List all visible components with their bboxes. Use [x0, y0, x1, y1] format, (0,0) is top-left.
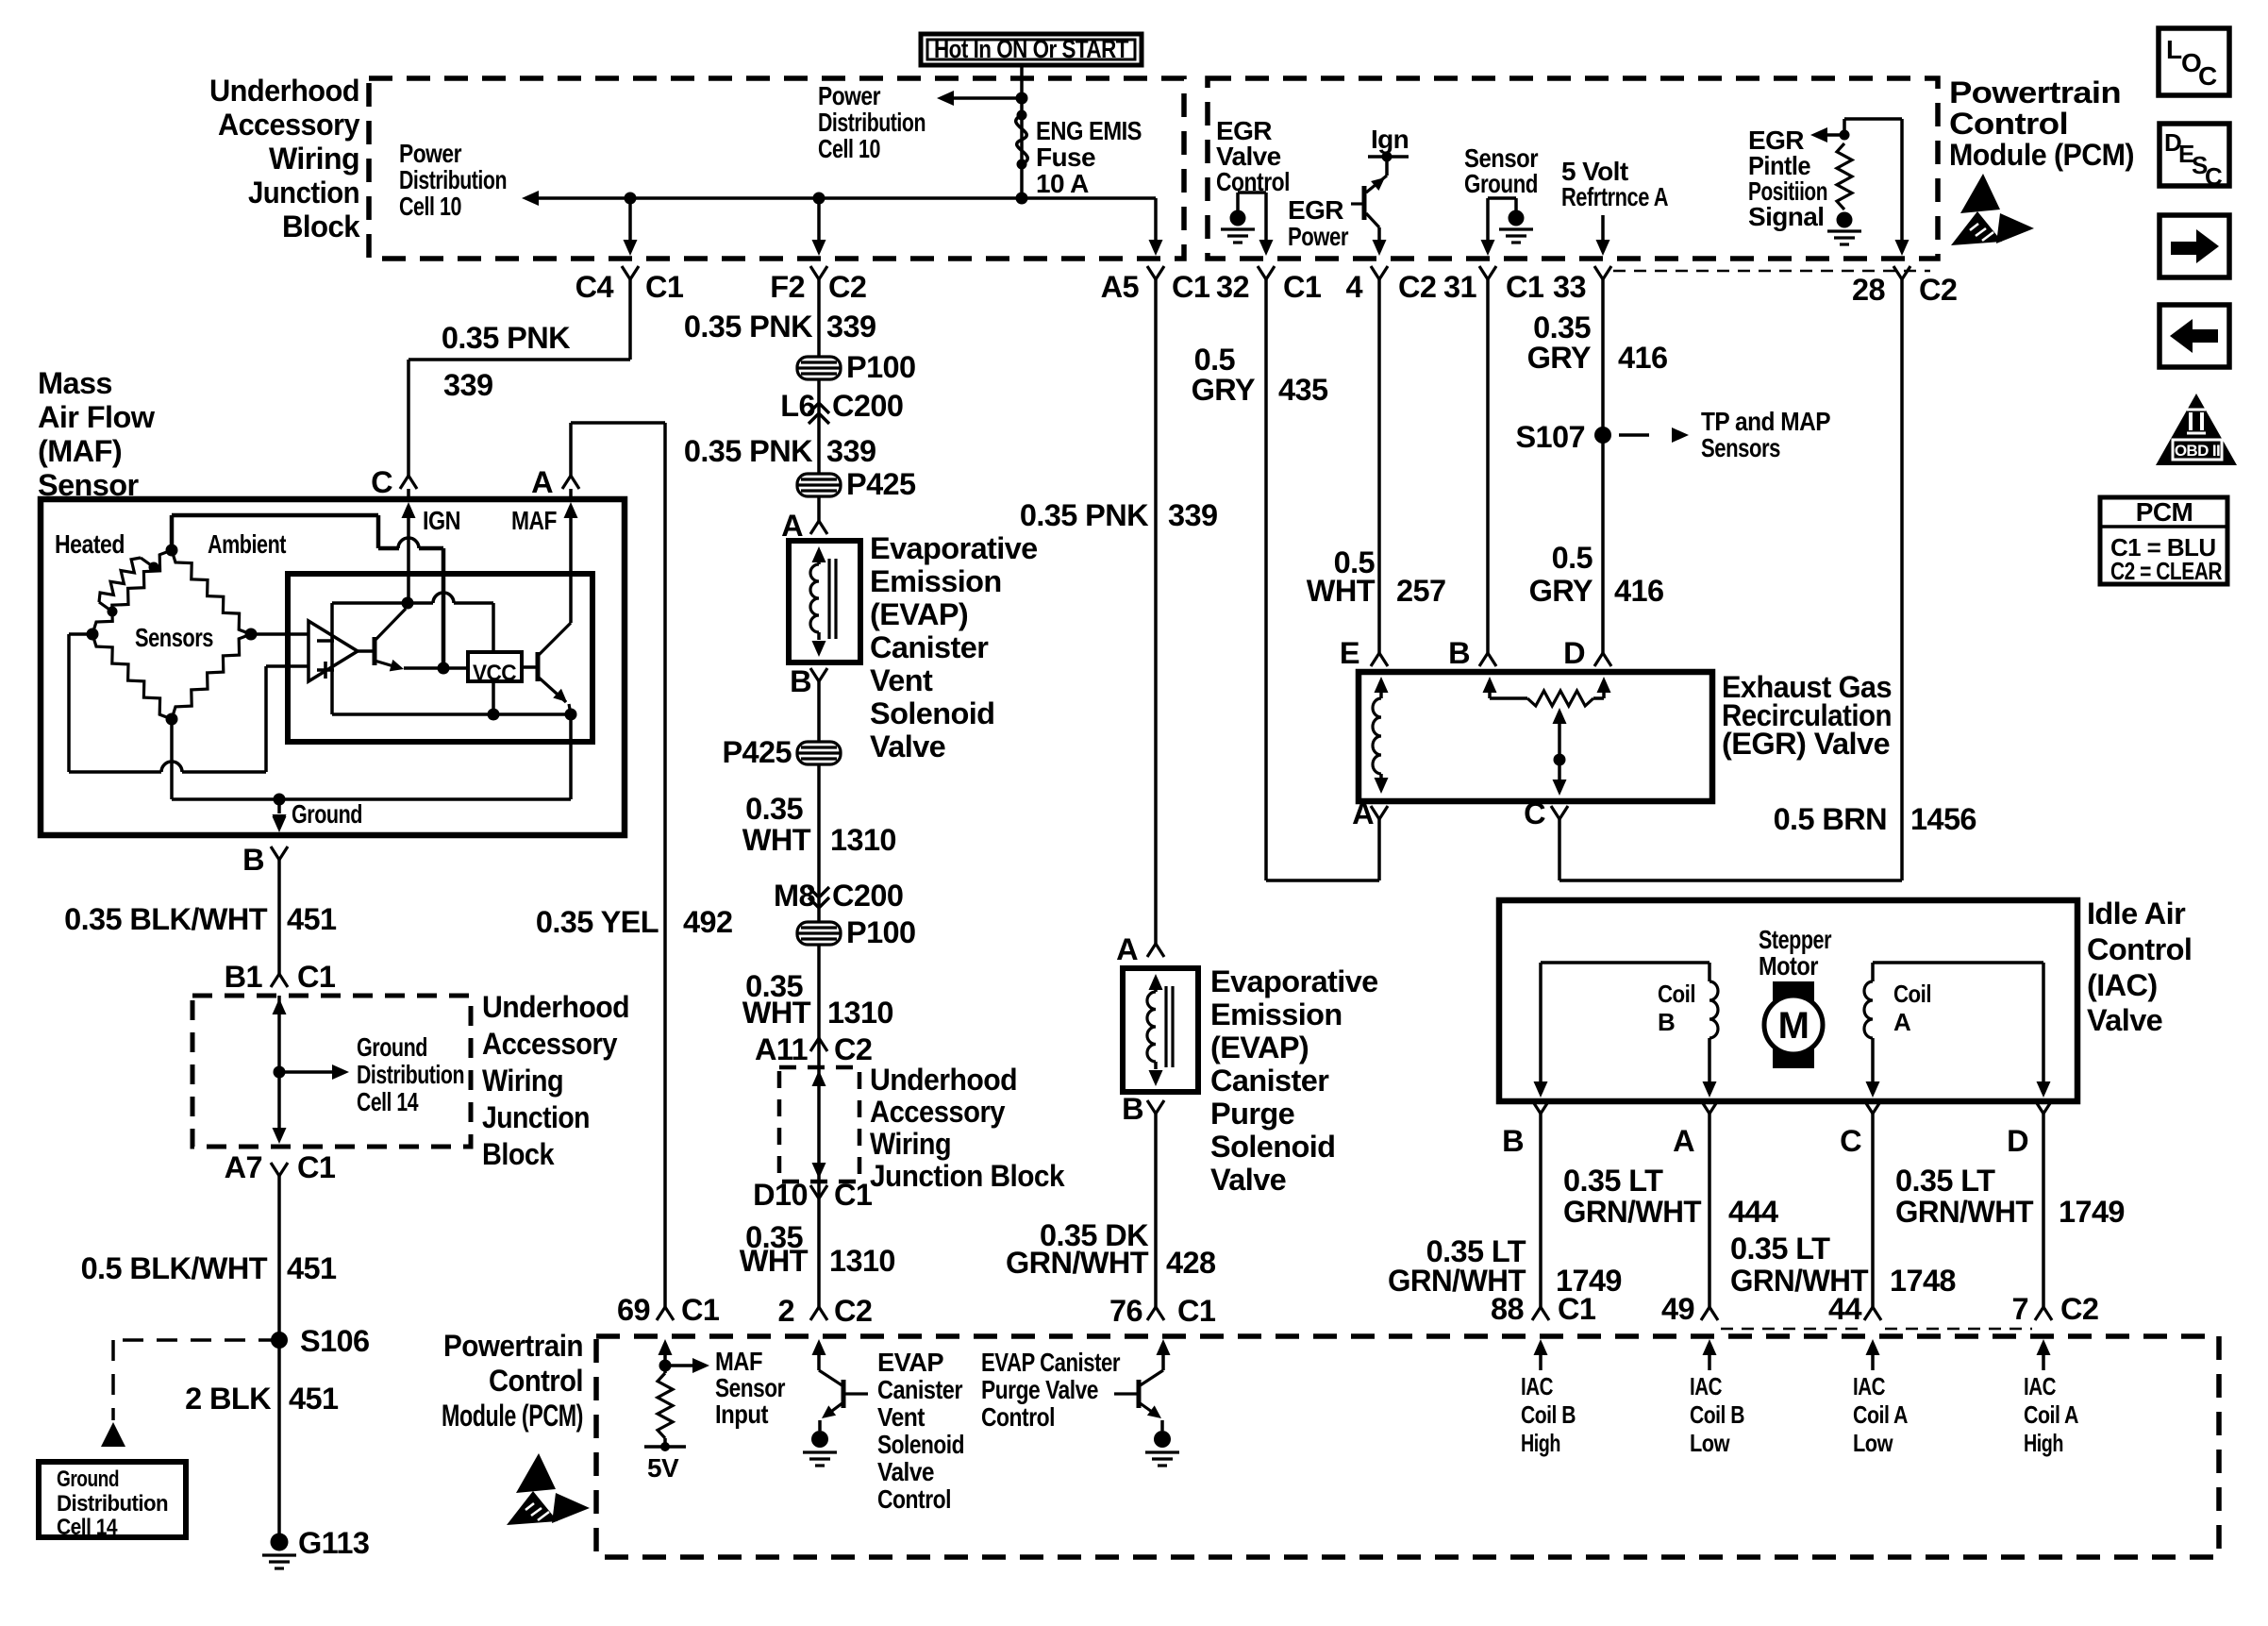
- wire pin32 to EGR A (0.5 GRY 435): [1264, 279, 1268, 880]
- svg-text:88: 88: [1491, 1292, 1524, 1326]
- svg-text:Junction: Junction: [482, 1100, 590, 1134]
- svg-text:69: 69: [617, 1293, 650, 1327]
- svg-text:Wiring: Wiring: [482, 1064, 563, 1098]
- svg-text:A7: A7: [225, 1150, 262, 1184]
- svg-text:492: 492: [683, 905, 732, 939]
- svg-text:D: D: [2007, 1124, 2028, 1158]
- svg-text:Motor: Motor: [1759, 951, 1819, 981]
- svg-text:444: 444: [1728, 1195, 1778, 1229]
- pin A5 C1: [1147, 266, 1164, 279]
- bridge resistor top-left (heated pair): [92, 550, 172, 634]
- svg-text:451: 451: [287, 902, 337, 936]
- dashed wire to ground distribution box: [113, 1338, 279, 1342]
- svg-text:Wiring: Wiring: [269, 142, 359, 176]
- ESD symbol top right: [1951, 174, 2034, 245]
- svg-text:1310: 1310: [830, 823, 896, 857]
- svg-text:Control: Control: [2087, 932, 2192, 966]
- svg-text:Valve: Valve: [2087, 1003, 2162, 1037]
- svg-text:B: B: [242, 843, 264, 877]
- svg-text:M8: M8: [774, 879, 815, 913]
- svg-text:0.35 YEL: 0.35 YEL: [536, 905, 659, 939]
- pin 69 C1: [657, 1307, 674, 1320]
- underhood accessory junction dashed box (left): [192, 996, 471, 1147]
- svg-text:Evaporative: Evaporative: [870, 531, 1038, 565]
- svg-text:P100: P100: [846, 915, 916, 949]
- pin 33: [1594, 266, 1611, 279]
- svg-text:Power: Power: [399, 139, 462, 168]
- EVAP canister purge solenoid valve box: [1123, 968, 1198, 1092]
- feedback left vertical: [330, 603, 334, 714]
- svg-text:Cell 10: Cell 10: [399, 192, 461, 221]
- svg-text:Emission: Emission: [1210, 997, 1342, 1031]
- DESC box: [2160, 124, 2229, 186]
- IGN junction dot: [402, 597, 414, 610]
- stepper motor M: [1773, 981, 1814, 1004]
- svg-text:G113: G113: [298, 1526, 369, 1560]
- svg-text:Junction: Junction: [248, 176, 359, 210]
- svg-text:A: A: [1893, 1008, 1911, 1036]
- svg-text:M: M: [1778, 1005, 1809, 1047]
- pin A of IAC: [1701, 1100, 1718, 1114]
- svg-text:Ground: Ground: [292, 799, 362, 829]
- pin 2 transistor EVAP vent control: [812, 1339, 826, 1355]
- rail to ground rail: [569, 714, 573, 799]
- IGN arrow and label inside MAF: [402, 502, 416, 518]
- svg-text:WHT: WHT: [742, 823, 811, 857]
- svg-text:Input: Input: [715, 1400, 768, 1429]
- svg-text:0.35 LT: 0.35 LT: [1563, 1164, 1663, 1198]
- svg-text:Refrtrnce A: Refrtrnce A: [1561, 182, 1668, 211]
- svg-text:5V: 5V: [647, 1453, 679, 1483]
- wire bridge right to op-amp minus: [251, 632, 309, 636]
- svg-text:Solenoid: Solenoid: [870, 696, 994, 730]
- svg-text:Fuse: Fuse: [1036, 142, 1095, 172]
- svg-text:451: 451: [287, 1251, 337, 1285]
- pin 32 C1: [1258, 266, 1275, 279]
- svg-text:(EVAP): (EVAP): [1210, 1031, 1309, 1064]
- svg-text:428: 428: [1166, 1246, 1216, 1280]
- ESD symbol bottom: [507, 1453, 590, 1525]
- svg-text:Underhood: Underhood: [482, 990, 629, 1024]
- svg-text:C: C: [1840, 1124, 1861, 1158]
- svg-text:10 A: 10 A: [1036, 169, 1089, 198]
- svg-text:C1: C1: [834, 1178, 873, 1212]
- VCC box: [468, 652, 522, 681]
- feedback wire from IGN dot to VCC top: [332, 601, 433, 605]
- bridge resistor bottom-right: [172, 634, 251, 719]
- svg-text:ENG EMIS: ENG EMIS: [1036, 116, 1142, 145]
- svg-text:B: B: [790, 664, 811, 698]
- svg-text:Underhood: Underhood: [209, 74, 359, 108]
- splice S106: [271, 1332, 288, 1349]
- svg-text:1310: 1310: [829, 1244, 895, 1278]
- svg-text:(IAC): (IAC): [2087, 968, 2158, 1002]
- MAF arrow and label inside MAF: [564, 502, 578, 518]
- svg-text:(EVAP): (EVAP): [870, 597, 968, 631]
- wire A5 drop: [1154, 198, 1158, 242]
- ground distribution cell 14 box: [39, 1462, 186, 1537]
- svg-text:Cell 10: Cell 10: [818, 134, 880, 163]
- svg-text:76: 76: [1109, 1294, 1142, 1328]
- svg-text:Coil A: Coil A: [1853, 1400, 1909, 1429]
- svg-text:D10: D10: [753, 1178, 808, 1212]
- svg-text:339: 339: [1168, 498, 1217, 532]
- svg-text:Vent: Vent: [877, 1402, 925, 1432]
- svg-text:33: 33: [1553, 270, 1586, 304]
- svg-text:Solenoid: Solenoid: [877, 1430, 964, 1459]
- svg-text:49: 49: [1661, 1292, 1694, 1326]
- small underhood junction dashed box (middle): [779, 1067, 859, 1182]
- svg-text:C4: C4: [575, 270, 614, 304]
- svg-text:EGR: EGR: [1288, 195, 1343, 225]
- svg-text:GRY: GRY: [1527, 341, 1592, 375]
- Q2 collector to MAF output: [569, 621, 573, 623]
- svg-text:Ground: Ground: [1464, 169, 1538, 198]
- idle air control IAC valve box: [1499, 900, 2077, 1101]
- EGR solenoid coil: [1375, 677, 1389, 693]
- svg-text:0.35 LT: 0.35 LT: [1730, 1232, 1830, 1266]
- MAF inner amplifier box: [288, 574, 592, 742]
- svg-text:416: 416: [1614, 574, 1663, 608]
- svg-text:0.35: 0.35: [1533, 310, 1591, 344]
- pin B of MAF: [273, 816, 287, 832]
- svg-text:C: C: [1524, 796, 1545, 830]
- svg-text:C1: C1: [681, 1293, 720, 1327]
- svg-text:7: 7: [2012, 1292, 2028, 1326]
- bridge node dots: [166, 545, 178, 557]
- wire 0.35 YEL 492 vertical: [663, 423, 667, 1307]
- wire bridge top to IGN circuit: [170, 515, 175, 550]
- pin 2 C2: [810, 1307, 827, 1320]
- pin 44: [1864, 1307, 1881, 1320]
- pin 28 C2: [1893, 266, 1910, 279]
- junction dot C4: [625, 193, 637, 205]
- pin A7 C1: [271, 1163, 288, 1176]
- svg-text:Heated: Heated: [55, 529, 125, 559]
- svg-text:C2: C2: [834, 1032, 872, 1066]
- svg-text:0.35 LT: 0.35 LT: [1895, 1164, 1995, 1198]
- svg-text:0.5: 0.5: [1552, 541, 1593, 575]
- svg-text:Canister: Canister: [1210, 1064, 1329, 1098]
- svg-text:Coil: Coil: [1658, 980, 1695, 1008]
- svg-text:B: B: [1122, 1092, 1143, 1126]
- svg-text:Air Flow: Air Flow: [38, 400, 156, 434]
- wire bridge left to op-amp plus: [69, 632, 92, 636]
- thin dashed connector boundary 49-44-7: [1721, 1328, 1860, 1330]
- svg-text:GRY: GRY: [1529, 574, 1593, 608]
- svg-text:Module (PCM): Module (PCM): [1949, 138, 2134, 172]
- IAC wires down: [1539, 1114, 1543, 1307]
- pin B of EVAP purge valve: [1147, 1100, 1164, 1114]
- svg-text:Mass: Mass: [38, 366, 112, 400]
- svg-text:Purge Valve: Purge Valve: [981, 1375, 1098, 1404]
- svg-text:EVAP: EVAP: [877, 1348, 943, 1377]
- svg-text:GRN/WHT: GRN/WHT: [1895, 1195, 2034, 1229]
- svg-text:P425: P425: [722, 735, 792, 769]
- svg-text:Low: Low: [1690, 1429, 1730, 1457]
- svg-text:C200: C200: [832, 879, 903, 913]
- svg-text:C1: C1: [1506, 270, 1544, 304]
- svg-text:2: 2: [778, 1294, 794, 1328]
- svg-text:Ign: Ign: [1371, 125, 1409, 154]
- svg-text:C1: C1: [1177, 1294, 1216, 1328]
- IAC pin arrows inside PCM: [1534, 1339, 1548, 1355]
- pin B of EVAP vent valve: [810, 668, 827, 681]
- svg-text:B: B: [1502, 1124, 1524, 1158]
- pin A of EVAP vent valve: [810, 521, 827, 534]
- svg-text:Module (PCM): Module (PCM): [442, 1399, 583, 1433]
- emitter rail Q1 to VCC: [404, 666, 468, 670]
- svg-text:339: 339: [443, 368, 492, 402]
- arrow to power distribution (top): [945, 96, 1022, 100]
- pin A of EVAP purge valve: [1147, 944, 1164, 957]
- svg-text:1748: 1748: [1890, 1264, 1956, 1298]
- wire pin31 to EGR B: [1486, 279, 1490, 653]
- svg-text:Distribution: Distribution: [818, 108, 926, 137]
- svg-text:WHT: WHT: [1307, 574, 1376, 608]
- svg-text:A: A: [1673, 1124, 1694, 1158]
- svg-text:451: 451: [289, 1382, 339, 1416]
- svg-text:IAC: IAC: [1521, 1372, 1554, 1400]
- svg-text:Ground: Ground: [357, 1032, 427, 1062]
- junction dot + ground distribution arrow: [274, 1066, 286, 1079]
- svg-text:Power: Power: [1288, 222, 1349, 251]
- svg-text:1456: 1456: [1910, 802, 1976, 836]
- svg-text:C1: C1: [1172, 270, 1210, 304]
- underhood accessory wiring junction block top dashed box: [369, 78, 1184, 259]
- svg-text:WHT: WHT: [740, 1244, 809, 1278]
- svg-text:WHT: WHT: [742, 996, 811, 1030]
- svg-text:P100: P100: [846, 350, 916, 384]
- svg-text:Purge: Purge: [1210, 1097, 1294, 1131]
- inline connector P100 (2): [797, 922, 841, 945]
- VCC to transistor Q2 base: [522, 665, 538, 669]
- svg-text:44: 44: [1828, 1292, 1861, 1326]
- svg-text:Block: Block: [482, 1137, 555, 1171]
- LOC box: [2159, 28, 2229, 95]
- pin B1 C1: [271, 974, 288, 987]
- svg-text:435: 435: [1278, 373, 1328, 407]
- svg-text:S107: S107: [1515, 420, 1585, 454]
- svg-text:Low: Low: [1853, 1429, 1893, 1457]
- svg-text:257: 257: [1396, 574, 1445, 608]
- fuse ENG EMIS 10 A: [1017, 110, 1027, 121]
- pin D10 C1: [810, 1185, 827, 1199]
- svg-text:Junction Block: Junction Block: [870, 1159, 1065, 1193]
- svg-text:GRN/WHT: GRN/WHT: [1563, 1195, 1702, 1229]
- svg-text:32: 32: [1216, 270, 1249, 304]
- svg-text:C2: C2: [1398, 270, 1436, 304]
- svg-text:C1: C1: [297, 1150, 336, 1184]
- svg-text:Wiring: Wiring: [870, 1127, 951, 1161]
- EGR wiper: [1553, 708, 1567, 724]
- svg-text:Power: Power: [818, 81, 881, 110]
- svg-text:GRY: GRY: [1192, 373, 1256, 407]
- OBD II triangle: [2156, 394, 2237, 465]
- svg-text:F2: F2: [770, 270, 805, 304]
- thin dashed connector boundary under pins 33-28: [1613, 270, 1930, 272]
- svg-text:416: 416: [1618, 341, 1667, 375]
- svg-text:Accessory: Accessory: [218, 108, 359, 142]
- pin 76 transistor EVAP purge control: [1157, 1339, 1171, 1355]
- svg-text:High: High: [1521, 1429, 1560, 1457]
- svg-text:Evaporative: Evaporative: [1210, 964, 1378, 998]
- svg-text:0.5 BRN: 0.5 BRN: [1774, 802, 1887, 836]
- svg-text:1749: 1749: [2059, 1195, 2125, 1229]
- pin B of IAC: [1532, 1100, 1549, 1114]
- pin 31 C1: [1479, 266, 1496, 279]
- right arrow box: [2160, 215, 2229, 277]
- svg-text:Accessory: Accessory: [870, 1095, 1005, 1129]
- svg-text:C200: C200: [832, 389, 903, 423]
- solenoid coil inside purge valve: [1149, 974, 1163, 990]
- pin C of IAC: [1864, 1100, 1881, 1114]
- coil B circuit: [1541, 961, 1709, 964]
- svg-text:0.35 PNK: 0.35 PNK: [684, 434, 813, 468]
- solenoid coil inside vent valve: [812, 546, 826, 562]
- svg-text:28: 28: [1852, 273, 1885, 307]
- svg-text:Stepper: Stepper: [1759, 925, 1832, 954]
- EGR pintle position resistor circuit pin 28: [1844, 117, 1902, 121]
- svg-text:0.35: 0.35: [745, 792, 803, 826]
- pin 7 C2: [2035, 1307, 2052, 1320]
- svg-text:C2: C2: [2060, 1292, 2098, 1326]
- svg-text:L6: L6: [780, 389, 815, 423]
- pin E of EGR: [1371, 653, 1388, 666]
- svg-text:A: A: [1116, 932, 1138, 966]
- svg-text:C: C: [371, 465, 392, 499]
- svg-text:Coil B: Coil B: [1690, 1400, 1744, 1429]
- power bus wire: [539, 196, 1156, 200]
- pin 88 C1: [1532, 1307, 1549, 1320]
- svg-text:B1: B1: [225, 960, 263, 994]
- svg-text:(EGR) Valve: (EGR) Valve: [1722, 727, 1890, 761]
- svg-text:Control: Control: [1949, 107, 2068, 141]
- pin A of MAF: [562, 476, 579, 489]
- bridge resistor top-right: [172, 550, 251, 634]
- svg-text:C: C: [2198, 61, 2217, 91]
- wire hot-in to bus: [1020, 65, 1024, 198]
- ground G113: [271, 1534, 289, 1551]
- svg-text:Block: Block: [282, 210, 360, 243]
- op-amp output to transistor Q1: [358, 649, 375, 653]
- powertrain control module top dashed box: [1208, 78, 1938, 259]
- left arrow box: [2160, 305, 2229, 367]
- svg-text:IAC: IAC: [1690, 1372, 1723, 1400]
- svg-text:Sensors: Sensors: [135, 623, 213, 652]
- pin A11 C2: [810, 1038, 827, 1051]
- svg-text:Distribution: Distribution: [399, 165, 507, 194]
- svg-text:L: L: [2166, 35, 2182, 64]
- svg-text:Sensors: Sensors: [1701, 433, 1780, 462]
- EGR valve control ground, pin 32: [1238, 191, 1266, 194]
- MAF sensor box: [41, 499, 625, 835]
- svg-text:E: E: [1340, 636, 1359, 670]
- transistor Q1: [373, 637, 377, 665]
- svg-text:1310: 1310: [827, 996, 893, 1030]
- exhaust gas recirculation EGR valve box: [1359, 672, 1712, 801]
- pin 4 C2: [1371, 266, 1388, 279]
- svg-text:Canister: Canister: [870, 630, 989, 664]
- bridge resistor bottom-left: [92, 634, 172, 719]
- svg-text:0.5: 0.5: [1194, 343, 1236, 377]
- svg-text:P425: P425: [846, 467, 916, 501]
- svg-text:Control: Control: [981, 1402, 1055, 1432]
- wire through junction box: [277, 996, 281, 1129]
- svg-text:0.5 BLK/WHT: 0.5 BLK/WHT: [81, 1251, 268, 1285]
- svg-text:Ground: Ground: [57, 1467, 119, 1492]
- wire F2 chain down: [817, 279, 821, 521]
- svg-text:A11: A11: [755, 1032, 809, 1066]
- pin 49: [1701, 1307, 1718, 1320]
- svg-text:High: High: [2024, 1429, 2063, 1457]
- svg-text:C: C: [2205, 162, 2223, 191]
- svg-text:Canister: Canister: [877, 1375, 963, 1404]
- svg-text:Solenoid: Solenoid: [1210, 1130, 1335, 1164]
- VCC bottom stub: [492, 681, 495, 714]
- svg-text:Valve: Valve: [877, 1457, 934, 1486]
- svg-text:339: 339: [826, 310, 876, 344]
- svg-text:Underhood: Underhood: [870, 1063, 1017, 1097]
- svg-text:C1: C1: [645, 270, 684, 304]
- wire bridge bottom to ground rail: [170, 719, 174, 799]
- svg-text:A5: A5: [1101, 270, 1140, 304]
- svg-text:PCM: PCM: [2136, 497, 2193, 527]
- svg-text:Distribution: Distribution: [357, 1060, 464, 1089]
- ground dot and arrow inside MAF: [274, 794, 286, 806]
- svg-text:C1: C1: [1283, 270, 1322, 304]
- svg-text:D: D: [1563, 636, 1585, 670]
- pin F2 C2: [810, 266, 827, 279]
- svg-text:IAC: IAC: [1853, 1372, 1886, 1400]
- svg-text:0.35 PNK: 0.35 PNK: [684, 310, 813, 344]
- svg-text:Control: Control: [489, 1364, 583, 1398]
- svg-text:Powertrain: Powertrain: [1949, 75, 2121, 109]
- transistor Q2: [536, 652, 541, 681]
- svg-text:B: B: [1658, 1008, 1675, 1036]
- svg-text:Ambient: Ambient: [208, 529, 286, 559]
- svg-text:IGN: IGN: [423, 506, 460, 535]
- svg-text:0.35 PNK: 0.35 PNK: [442, 321, 571, 355]
- svg-text:339: 339: [826, 434, 876, 468]
- op-amp U1: [309, 621, 358, 681]
- MAF internal ground rail: [172, 797, 571, 801]
- svg-text:Hot In ON Or START: Hot In ON Or START: [934, 35, 1129, 63]
- svg-text:(MAF): (MAF): [38, 434, 122, 468]
- svg-text:C2 = CLEAR: C2 = CLEAR: [2110, 557, 2223, 585]
- svg-text:Distribution: Distribution: [57, 1491, 168, 1517]
- svg-text:EVAP Canister: EVAP Canister: [981, 1348, 1121, 1377]
- hot in on or start box: [921, 34, 1142, 65]
- MAF sensor input resistor inside PCM: [659, 1339, 673, 1355]
- svg-text:2 BLK: 2 BLK: [185, 1382, 272, 1416]
- svg-text:OBD II: OBD II: [2175, 442, 2220, 460]
- svg-text:Powertrain: Powertrain: [443, 1329, 583, 1363]
- inline connector P425 (2): [797, 742, 841, 764]
- svg-text:4: 4: [1346, 270, 1363, 304]
- 5 volt reference wire pin 33: [1601, 215, 1605, 242]
- EGR pot resistor: [1483, 677, 1497, 693]
- pin D of IAC: [2035, 1100, 2052, 1114]
- svg-text:C2: C2: [828, 270, 866, 304]
- svg-text:31: 31: [1443, 270, 1476, 304]
- pin D of EGR: [1594, 653, 1611, 666]
- svg-text:Signal: Signal: [1748, 202, 1824, 231]
- svg-text:IAC: IAC: [2024, 1372, 2057, 1400]
- svg-text:C1: C1: [297, 960, 336, 994]
- svg-text:Control: Control: [877, 1484, 951, 1514]
- wire C4 to MAF pin C (0.35 PNK 339): [628, 279, 632, 360]
